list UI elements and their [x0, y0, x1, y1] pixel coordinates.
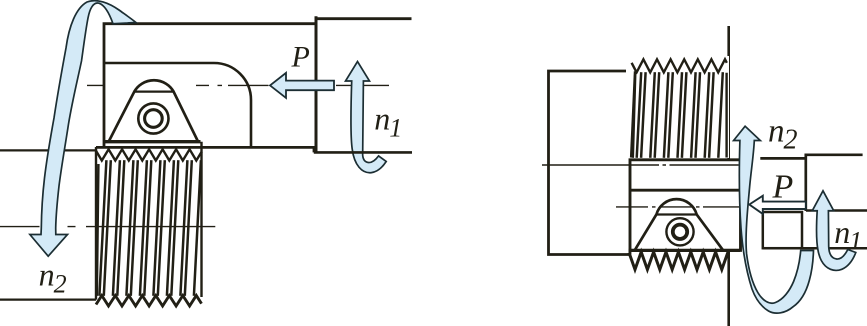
- svg-text:P: P: [772, 169, 794, 206]
- svg-text:P: P: [291, 41, 310, 74]
